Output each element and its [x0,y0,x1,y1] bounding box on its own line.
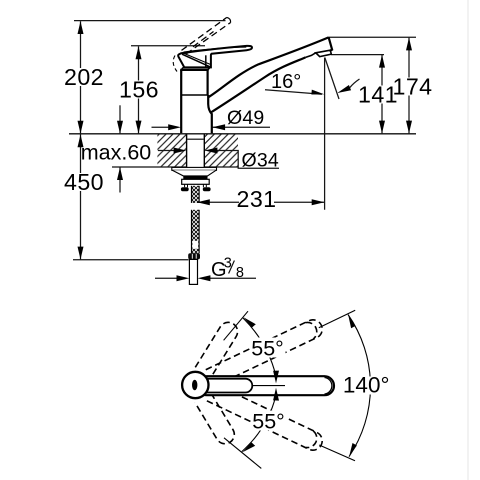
dimension &#216;49 arrow left [168,124,181,130]
55 deg lower arrow at spout [273,388,279,401]
dimension 231 arrow left [197,199,210,205]
extension line 141 ref (aerator) [331,54,384,56]
dimension G3/8 arrow right [198,275,211,281]
dimension max.60 lower arrow line [119,167,121,192]
svg-text:55°: 55° [251,337,284,361]
svg-text:Ø49: Ø49 [227,107,264,129]
cartridge cap [181,68,210,70]
body right edge upper [207,70,209,95]
shank right edge [203,135,205,168]
dashed spout swivel extreme lower [206,383,326,453]
hose lower segment braid [192,210,200,254]
dimension 156 arrow top [136,46,142,59]
extension line 140 deg bottom [319,445,355,461]
dimension &#216;49 tail left [152,126,171,128]
dimension G3/8 arrow left [177,275,190,281]
water stream vertical line [324,58,326,210]
label 202 [63,68,105,86]
lever swing dashed arc [173,56,177,72]
140deg arc [348,315,370,457]
cone spacer [172,170,216,176]
svg-text:8: 8 [236,265,244,281]
body seam [181,94,207,96]
label 55 deg lower [251,411,286,431]
16 deg curved arrow [350,79,360,88]
counter top line [69,133,416,135]
svg-text:140°: 140° [343,373,390,398]
dimension 141 arrow bottom [379,121,385,134]
scan artifact line [467,0,469,480]
svg-text:231: 231 [237,186,277,212]
dimension max.60 upper arrow line [119,105,121,133]
16deg curved arrow head [337,85,351,93]
dashed spout 55 deg position upper [195,319,241,377]
55deg upper leader [243,318,276,376]
dimension 141 arrow top [379,55,385,68]
hose lower segment edges [191,210,193,254]
nut dark band [183,176,207,179]
label 156 [121,81,157,99]
dimension &#216;34 arrow right [205,148,218,154]
extension line 156 ref [131,45,205,47]
spout top view [197,376,334,395]
counter bottom line [112,166,238,168]
spout upper edge [208,37,329,97]
svg-text:16°: 16° [271,71,301,93]
dimension 156 vertical line [138,46,140,133]
spout tip face [329,37,333,51]
svg-text:450: 450 [64,169,104,195]
label 55 deg upper [251,338,286,358]
dimension &#216;49 tail right [213,126,271,128]
dimension 156 arrow bottom [136,121,142,134]
counter cross-section hatch [157,135,238,167]
dimension 174 arrow bottom [406,121,412,134]
svg-text:156: 156 [119,77,159,103]
dimension 141 vertical line [381,55,383,134]
dimension 202 arrow top [78,21,84,34]
spout end inner arc [325,378,332,395]
dimension 174 arrow top [406,38,412,51]
hose upper segment braid [192,186,200,203]
dimension G3/8 tail left [155,277,179,279]
dimension G3/8 tail right [208,277,256,279]
spout lower edge [211,57,306,112]
extension line 55 deg lower [224,438,261,469]
dimension 450 arrow bottom [78,247,84,260]
dimension 231 arrow right [312,199,325,205]
svg-text:Ø34: Ø34 [242,149,279,171]
dashed spout upper extreme (shallow) [195,317,325,453]
body left edge [180,70,182,133]
55 deg upper arrow at extension [244,317,256,327]
label 141 [362,86,394,104]
55 deg upper arrow at spout [273,371,279,384]
dimension 450 arrow top [78,134,84,147]
handle slot [192,380,197,391]
dashed spout 55 deg position lower [195,393,238,447]
body right edge lower + bulge [208,95,212,133]
dimension &#216;34 leader right [215,151,279,169]
dimension 231 horizontal line [197,201,325,203]
svg-text:174: 174 [393,74,433,100]
svg-text:202: 202 [64,64,104,90]
extension line 174 ref (spout top) [329,36,417,38]
dimension 174 vertical line [408,38,410,134]
threaded pipe end G3/8 [189,259,197,284]
dimension &#216;34 tail left [158,150,176,152]
aerator [306,50,332,57]
label 140 deg [343,377,390,395]
svg-text:max.60: max.60 [81,141,152,165]
svg-text:55°: 55° [252,410,285,434]
16 deg slant line [325,58,339,100]
body top edge [180,69,208,71]
label 174 [394,78,431,96]
dimension texts upper [63,64,432,281]
extension line 140 deg top [319,310,355,328]
shank below counter (white over hatch) [187,135,205,168]
hose connector [188,253,200,259]
extension line top of lever (202 ref) [74,20,226,22]
140 deg arc arrow top [348,315,355,328]
lever pill top view [198,379,252,393]
label 450 [63,173,105,191]
16 deg leader line [265,90,322,95]
dimension &#216;49 arrow right [212,124,225,130]
dashed spout swivel extreme upper [206,317,326,387]
right stud foot [203,184,206,187]
55 deg lower arrow at extension [243,442,256,452]
16deg leader arrow [311,90,324,95]
dimension 202/450 vertical line [80,21,82,259]
G3/8 fraction slash [229,261,235,274]
connector knurl highlights [191,254,193,259]
hose upper segment edges [191,186,193,203]
washer plate [172,167,217,170]
dimension max.60 arrow bottom [117,167,123,180]
dimension &#216;34 arrow left [174,148,187,154]
dimension max.60 arrow top [117,121,123,134]
spout centerline [252,385,285,387]
extension line 55 deg upper [224,311,248,340]
lever handle solid [178,46,252,68]
label 231 [239,191,274,209]
lever raised dashed ghost [182,17,231,53]
nut body [182,179,210,184]
55deg lower leader [242,396,276,452]
shank collar line [187,138,204,140]
hose-end ref line (450 bottom) [73,259,189,261]
left stud foot [185,184,188,187]
shank left edge [186,135,188,168]
dimension 202 arrow bottom [78,121,84,134]
faucet body [180,37,332,133]
140 deg arc arrow bottom [349,443,357,456]
body circle top view [182,372,208,398]
